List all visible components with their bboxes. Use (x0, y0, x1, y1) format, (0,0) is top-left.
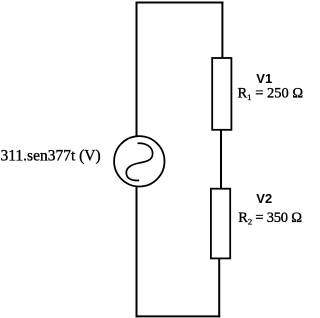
svg-text:V1: V1 (256, 71, 272, 86)
wire left vertical lower (136, 187, 138, 318)
resistor R2 body (211, 189, 230, 259)
wire middle between R1 and R2 (220, 130, 222, 190)
wire bottom horizontal (136, 315, 221, 317)
AC voltage source circle (114, 136, 164, 186)
wire right vertical upper (221, 2, 223, 59)
wire left vertical upper (136, 2, 138, 138)
svg-text:311.sen377t (V): 311.sen377t (V) (1, 147, 101, 164)
resistor R1 body (212, 58, 231, 130)
wire top horizontal (136, 2, 224, 4)
svg-text:V2: V2 (256, 191, 272, 206)
svg-text:R1 = 250 Ω: R1 = 250 Ω (238, 86, 304, 103)
svg-text:R2 = 350 Ω: R2 = 350 Ω (238, 210, 302, 227)
AC source sine waveform (126, 143, 152, 180)
wire right vertical lower (218, 258, 220, 317)
